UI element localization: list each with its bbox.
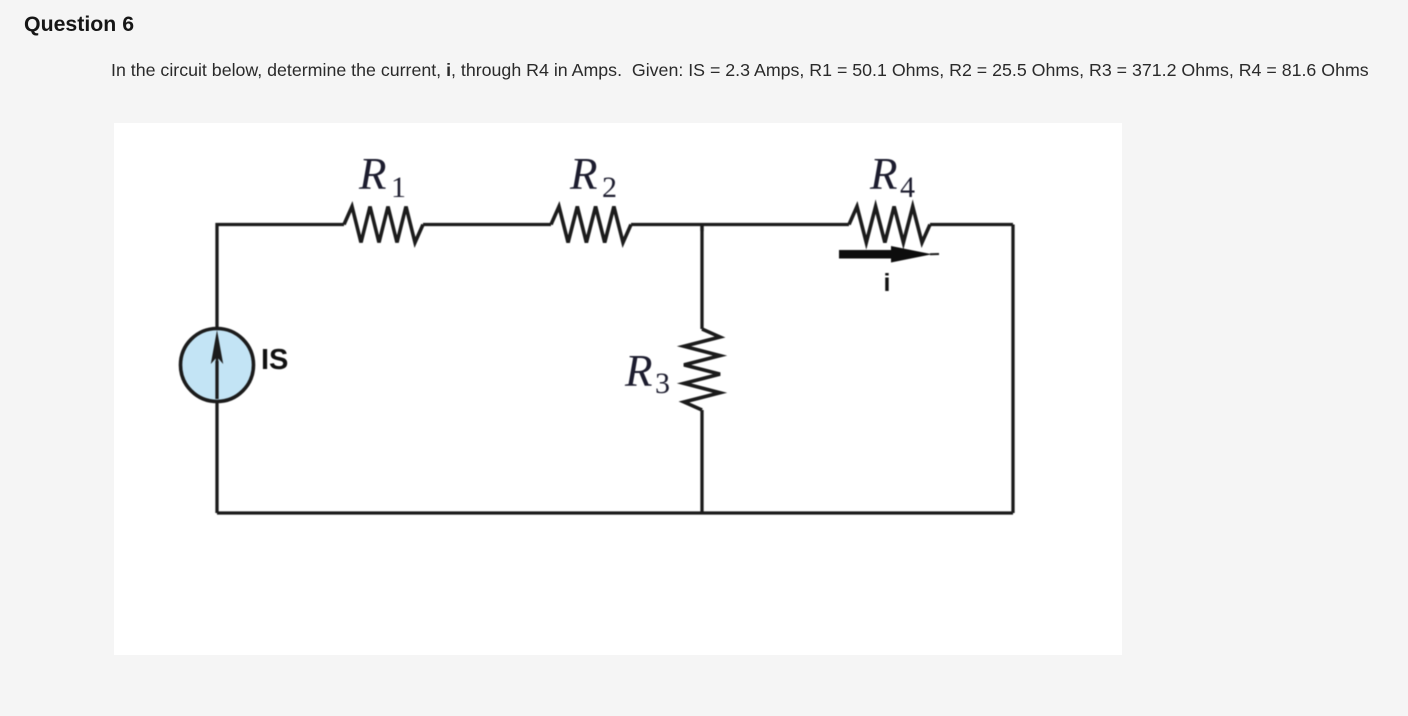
svg-text:R: R: [358, 149, 387, 199]
wire: R3 lower lead: [700, 410, 703, 513]
svg-text:3: 3: [655, 367, 670, 400]
wire: R1 to R2: [423, 223, 551, 226]
resistor R2: [551, 149, 631, 243]
problem statement text: [111, 61, 1369, 79]
heading: Question 6: [24, 12, 134, 37]
wire: R3 upper lead: [700, 225, 703, 330]
resistor R1: [344, 149, 423, 243]
wire: right side: [1011, 225, 1014, 514]
resistor R4: [849, 149, 930, 243]
wire: R4 to top-right corner: [930, 223, 1013, 226]
svg-text:R: R: [624, 346, 653, 396]
circuit schematic image panel: [114, 123, 1122, 655]
svg-text:R: R: [569, 149, 598, 199]
node A: junction of R2, R3, R4: [700, 225, 703, 232]
svg-text:i: i: [884, 269, 891, 297]
resistor R3: [624, 329, 720, 410]
wire: R2 to node A: [631, 223, 702, 226]
wire: node A to R4: [702, 223, 849, 226]
svg-text:4: 4: [900, 171, 915, 204]
wire: top-left segment (node top-left corner to R1): [217, 225, 344, 328]
svg-text:IS: IS: [261, 344, 288, 376]
current arrow i (through R4): [839, 246, 939, 297]
wire: bottom: [217, 511, 1013, 514]
svg-text:1: 1: [391, 171, 406, 204]
svg-text:R: R: [869, 149, 898, 199]
current source IS: [181, 329, 289, 402]
wire: left lower segment: [215, 403, 218, 513]
svg-text:2: 2: [602, 171, 617, 204]
